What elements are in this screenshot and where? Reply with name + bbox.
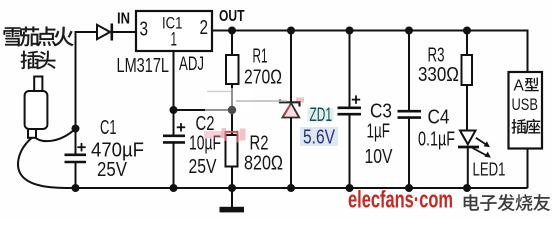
capacitor C4 plates bbox=[398, 111, 422, 117]
ground rail bottom bbox=[68, 187, 528, 189]
svg-text:LM317L: LM317L bbox=[117, 55, 170, 77]
node R1/R2 junction (greyed) bbox=[228, 106, 236, 114]
svg-text:OUT: OUT bbox=[219, 8, 245, 25]
svg-text:3: 3 bbox=[140, 18, 149, 40]
zener ZD1 symbol bbox=[280, 98, 304, 118]
svg-text:A: A bbox=[514, 78, 525, 95]
wire C1 top lead bbox=[75, 129, 77, 155]
ZD1 text halo bbox=[308, 108, 334, 122]
wire C4 bottom lead bbox=[408, 118, 410, 188]
wire R2 top lead bbox=[231, 110, 233, 135]
svg-text:0.1µF: 0.1µF bbox=[418, 129, 455, 151]
svg-text:C1: C1 bbox=[100, 117, 117, 139]
svg-text:R1: R1 bbox=[253, 46, 268, 68]
svg-text:2: 2 bbox=[200, 17, 209, 39]
watermark: dianzi fashaoyou bbox=[464, 194, 551, 211]
wire diode to IC pin 3 bbox=[112, 31, 136, 33]
node ADJ junction bbox=[170, 106, 178, 114]
capacitor C3 plates bbox=[338, 108, 362, 114]
svg-text:820Ω: 820Ω bbox=[244, 152, 283, 175]
5.6V text halo bbox=[300, 127, 338, 146]
svg-text:270Ω: 270Ω bbox=[244, 66, 282, 89]
resistor R3 bbox=[462, 55, 473, 85]
svg-text:10V: 10V bbox=[365, 145, 393, 168]
svg-text:elecfans·com: elecfans·com bbox=[348, 187, 453, 214]
wire plug curve to rail bbox=[18, 138, 70, 188]
svg-text:C3: C3 bbox=[370, 101, 392, 123]
svg-text:1µF: 1µF bbox=[367, 121, 391, 143]
C3 polarity plus bbox=[352, 95, 360, 103]
wire C4 top lead bbox=[408, 31, 410, 111]
svg-text:25V: 25V bbox=[97, 158, 127, 181]
svg-text:LED1: LED1 bbox=[473, 159, 506, 180]
resistor R1 bbox=[226, 55, 239, 84]
label: plug (cha tou) bbox=[21, 51, 56, 70]
svg-text:C4: C4 bbox=[428, 107, 450, 129]
capacitor C2 plates bbox=[163, 136, 185, 143]
wire R3 top lead bbox=[466, 31, 468, 56]
wire R1 bottom lead bbox=[231, 84, 233, 110]
wire USB bottom lead bbox=[527, 149, 529, 189]
wire ZD1 bottom lead bbox=[290, 118, 292, 189]
USB socket box bbox=[509, 72, 543, 149]
wire plug curve to C1 node bbox=[34, 130, 75, 142]
wire IC pin1 ADJ down bbox=[173, 51, 175, 136]
wire R1 top lead bbox=[231, 31, 233, 56]
wire C1 bottom lead bbox=[75, 162, 77, 188]
wire ZD1 top lead bbox=[290, 31, 292, 102]
svg-text:25V: 25V bbox=[189, 155, 217, 178]
C1 polarity plus bbox=[77, 143, 85, 151]
svg-text:ZD1: ZD1 bbox=[310, 105, 333, 126]
wire input top-left bbox=[76, 32, 98, 129]
label: cigar lighter (xue jia dian huo) bbox=[3, 27, 73, 47]
C2 polarity plus bbox=[177, 123, 185, 131]
svg-text:IN: IN bbox=[117, 11, 130, 28]
op IC1 box LM317L bbox=[136, 11, 212, 51]
wire R2 bottom lead bbox=[231, 167, 233, 189]
faint red watermark marks on R2 top bbox=[204, 128, 246, 143]
label: chazuo (socket) bbox=[511, 119, 540, 134]
svg-text:USB: USB bbox=[512, 96, 539, 114]
node C1 input junction bbox=[72, 125, 80, 133]
svg-text:1: 1 bbox=[171, 30, 178, 51]
capacitor C1 plates bbox=[65, 155, 87, 162]
wire ADJ horizontal to R1/R2 node bbox=[174, 109, 233, 111]
diode D (input series diode) bbox=[97, 24, 112, 41]
wire OUT top rail bbox=[212, 31, 528, 73]
wire C2 bottom lead bbox=[173, 142, 175, 188]
wire C3 bottom lead bbox=[349, 114, 351, 188]
svg-text:5.6V: 5.6V bbox=[303, 127, 336, 149]
resistor R2 bbox=[226, 135, 238, 167]
LED LED1 symbol bbox=[458, 131, 491, 158]
svg-text:330Ω: 330Ω bbox=[418, 63, 459, 86]
ground bbox=[220, 188, 245, 212]
faint center watermark wash bbox=[205, 88, 287, 112]
svg-text:ADJ: ADJ bbox=[179, 53, 204, 75]
wire R3 to LED bbox=[466, 85, 468, 131]
cigar lighter plug symbol bbox=[25, 77, 48, 138]
label: xing (type) bbox=[525, 78, 539, 92]
wire C3 top lead bbox=[349, 31, 351, 108]
wire LED bottom lead bbox=[467, 147, 469, 188]
